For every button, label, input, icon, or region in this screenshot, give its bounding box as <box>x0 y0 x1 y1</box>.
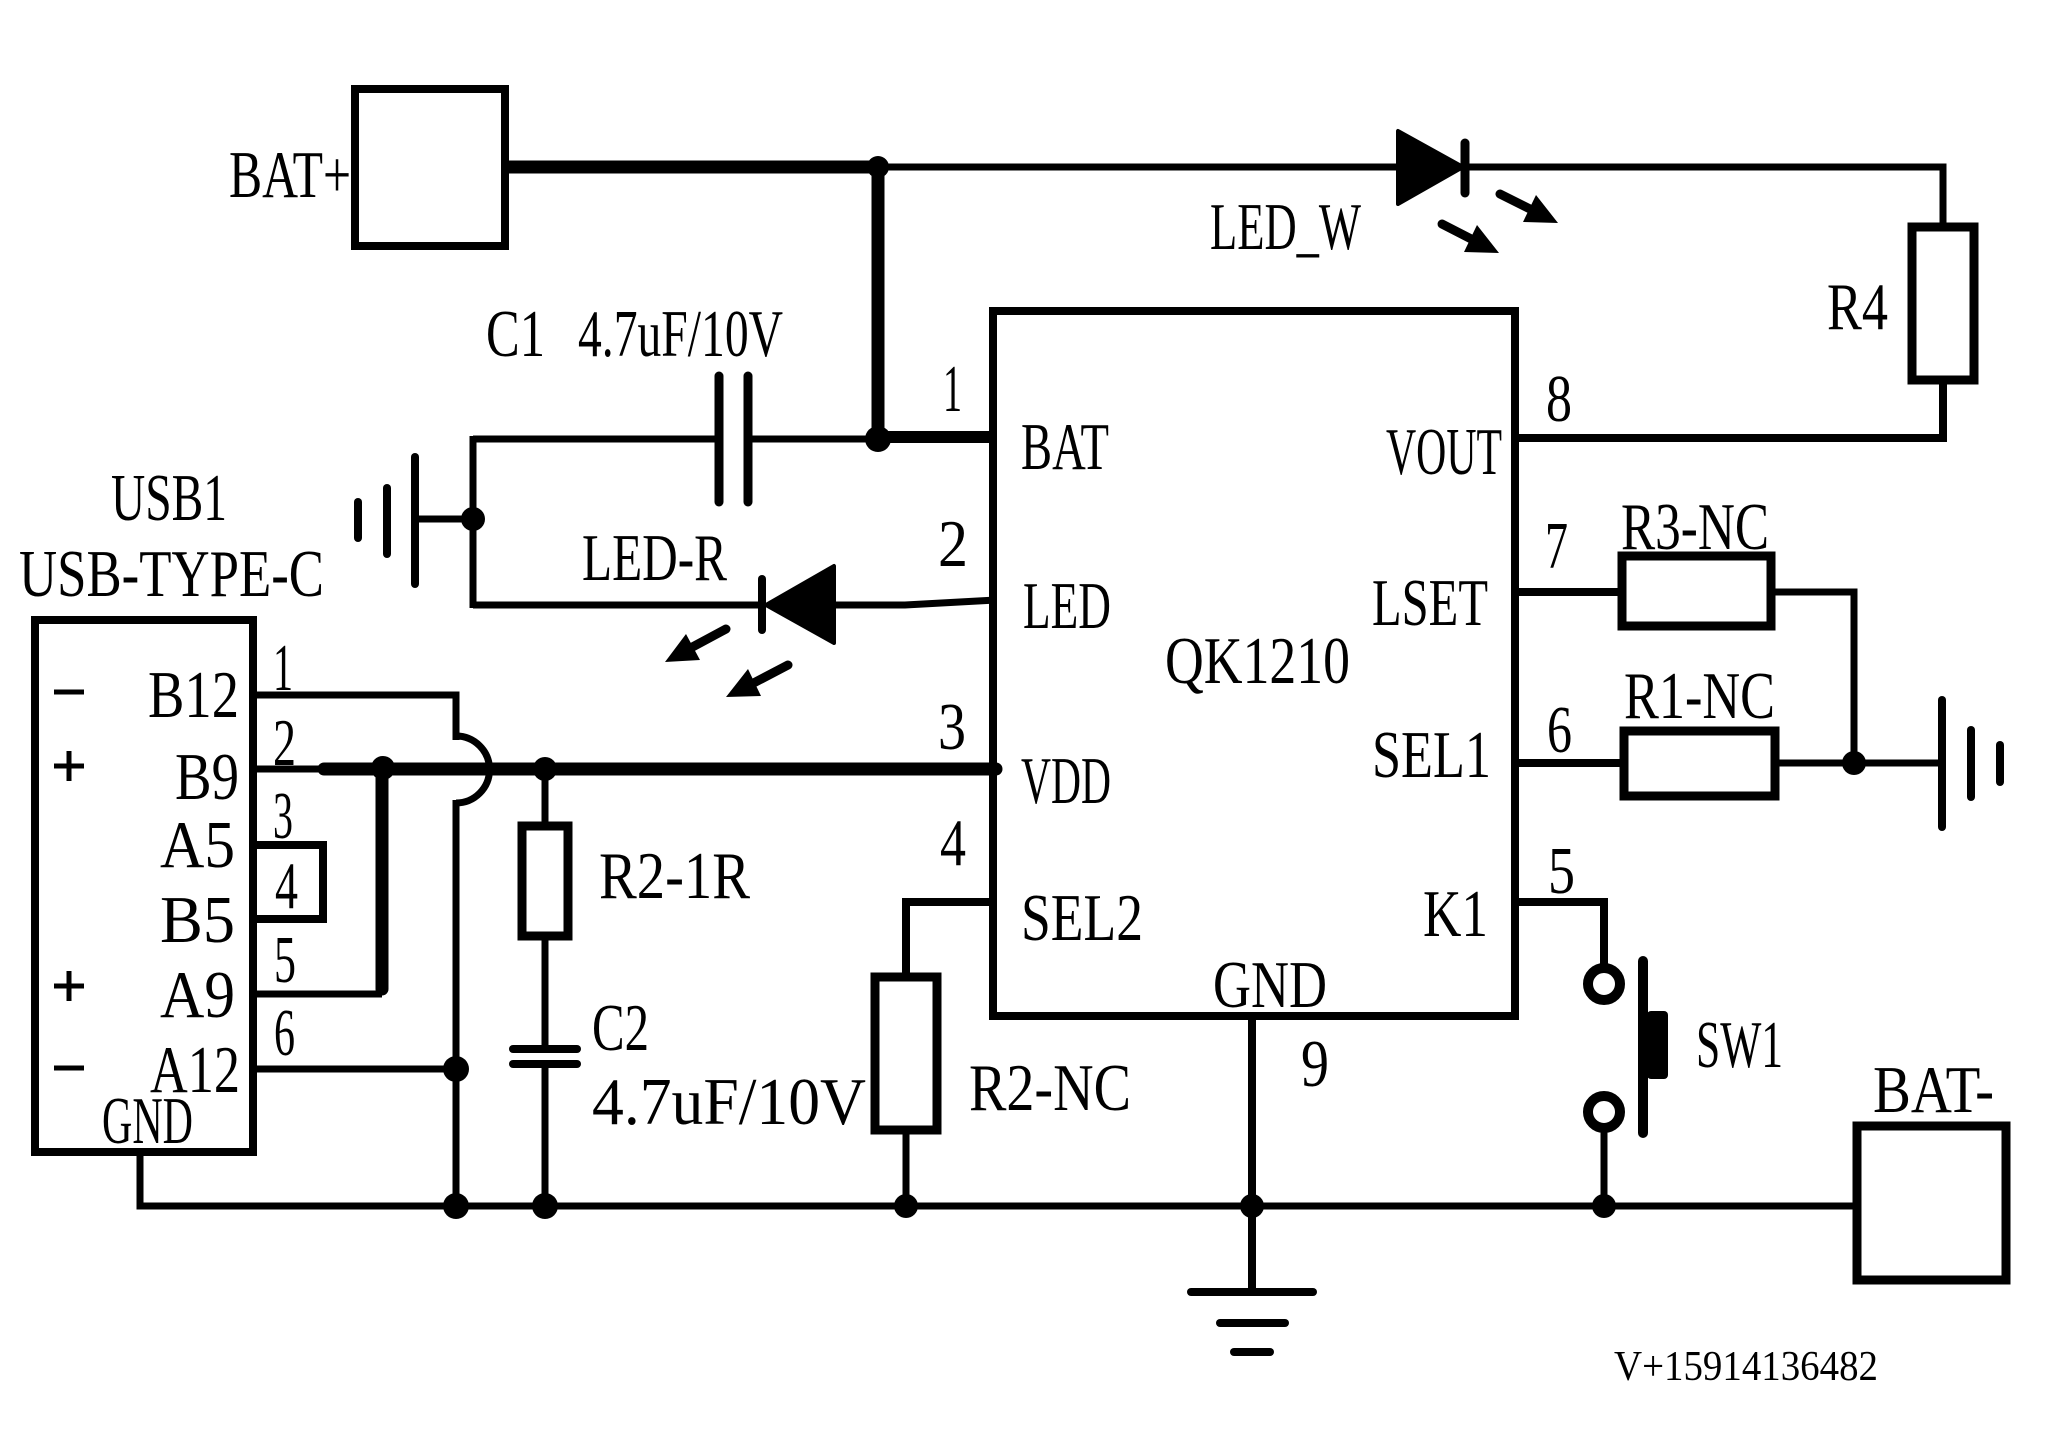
capacitor C2 <box>513 1049 577 1064</box>
svg-text:6: 6 <box>1547 693 1572 767</box>
svg-text:V+15914136482: V+15914136482 <box>1614 1344 1878 1390</box>
wire VDD to R2-1R <box>542 769 549 826</box>
wire hop over VDD net <box>456 736 490 803</box>
svg-text:4.7uF/10V: 4.7uF/10V <box>578 297 783 371</box>
wire left rail vertical <box>470 436 477 608</box>
svg-text:A9: A9 <box>160 958 235 1032</box>
wire A12 stub <box>253 1066 456 1073</box>
svg-text:R3-NC: R3-NC <box>1621 490 1769 564</box>
wire IC GND pin 9 down <box>1248 1016 1256 1292</box>
polarity minus (A12) <box>54 1066 84 1071</box>
svg-text:GND: GND <box>102 1084 193 1158</box>
svg-text:7: 7 <box>1545 509 1568 583</box>
wire A5-B5 short bracket <box>253 845 323 919</box>
svg-text:R2-1R: R2-1R <box>599 839 750 913</box>
LED_W light arrow upper <box>1500 194 1558 223</box>
polarity plus (B9) <box>54 751 84 781</box>
node B9 branch junction <box>371 756 395 780</box>
capacitor C1 <box>719 376 748 502</box>
diode LED-R <box>762 566 834 643</box>
wire B12 pin1 route upper <box>253 695 456 740</box>
wire junction down to pin1 node (thick) <box>872 167 885 440</box>
resistor R2-1R <box>522 826 568 936</box>
svg-text:LSET: LSET <box>1372 566 1488 640</box>
wire LED-R anode side <box>473 602 762 609</box>
wire R1-NC to junction <box>1775 760 1854 767</box>
node ground / left rail junction <box>461 507 485 531</box>
svg-text:R2-NC: R2-NC <box>969 1051 1131 1125</box>
pad BAT+ <box>355 89 505 246</box>
svg-text:USB-TYPE-C: USB-TYPE-C <box>19 537 324 611</box>
svg-text:LED-R: LED-R <box>582 521 727 595</box>
wire R2-1R to C2 <box>542 936 549 1049</box>
wire VDD net B9 to pin3 (thick) <box>324 763 996 776</box>
wire pin7 LSET to R3-NC <box>1512 588 1625 596</box>
wire C2 to ground rail <box>542 1064 549 1206</box>
wire B9 stub <box>253 766 322 773</box>
wire LED_W cathode to R4 top <box>1463 167 1943 230</box>
node GND pin / rail <box>1240 1194 1264 1218</box>
resistor R1-NC <box>1624 731 1775 796</box>
svg-text:BAT-: BAT- <box>1873 1053 1994 1127</box>
svg-text:C1: C1 <box>486 297 545 371</box>
wire pin6 SEL1 to R1-NC <box>1512 759 1627 767</box>
node A12 / B12 net junction <box>443 1056 469 1082</box>
svg-text:USB1: USB1 <box>111 461 227 535</box>
wire A9 stub <box>253 991 382 998</box>
svg-text:5: 5 <box>1548 834 1575 908</box>
svg-text:R1-NC: R1-NC <box>1624 659 1775 733</box>
svg-text:LED_W: LED_W <box>1210 190 1362 264</box>
wire C1 right to BAT node <box>748 436 878 443</box>
wire C1 left <box>473 436 719 443</box>
node BAT pin1 junction <box>865 426 891 452</box>
svg-text:K1: K1 <box>1423 877 1488 951</box>
svg-text:VDD: VDD <box>1021 744 1111 818</box>
svg-text:LED: LED <box>1023 569 1111 643</box>
svg-text:4.7uF/10V: 4.7uF/10V <box>592 1065 866 1139</box>
svg-text:BAT+: BAT+ <box>229 138 351 212</box>
svg-text:6: 6 <box>274 996 295 1070</box>
wire B12 pin1 route lower <box>453 800 460 1206</box>
wire R4 bottom to pin8 VOUT <box>1512 380 1943 438</box>
ground symbol right <box>1942 700 2000 827</box>
svg-text:R4: R4 <box>1827 270 1888 344</box>
wire R2-NC to ground rail <box>903 1130 910 1206</box>
LED-R light arrow lower <box>726 665 788 697</box>
IC U1 QK1210 body <box>993 311 1515 1016</box>
node BAT+ / LED_W junction <box>867 156 889 178</box>
svg-text:1: 1 <box>943 352 962 426</box>
svg-text:4: 4 <box>940 806 966 880</box>
svg-text:5: 5 <box>274 923 296 997</box>
pad BAT- <box>1857 1126 2006 1280</box>
connector USB1 body <box>35 620 253 1152</box>
diode LED_W <box>1398 131 1465 204</box>
node R3/R1 junction <box>1842 751 1866 775</box>
node B12 net / rail <box>443 1193 469 1219</box>
node VDD / R2-1R junction <box>533 757 557 781</box>
wire SW1 to ground rail <box>1601 1128 1608 1206</box>
wire USB GND drop <box>140 1152 250 1206</box>
wire LED-R to pin2 LED <box>834 600 996 605</box>
ground symbol bottom <box>1191 1292 1313 1352</box>
wire junction to right ground <box>1854 760 1942 767</box>
wire bottom ground rail <box>140 1203 1860 1210</box>
svg-text:BAT: BAT <box>1021 410 1109 484</box>
svg-text:VOUT: VOUT <box>1386 415 1502 489</box>
node SW1 / rail <box>1592 1194 1616 1218</box>
svg-text:SEL2: SEL2 <box>1021 881 1143 955</box>
svg-text:8: 8 <box>1546 362 1572 436</box>
svg-text:C2: C2 <box>592 991 649 1065</box>
svg-text:GND: GND <box>1213 948 1327 1022</box>
svg-text:B5: B5 <box>160 883 235 957</box>
resistor R4 <box>1912 227 1974 380</box>
wire B9 to A9 (thick) <box>376 769 389 989</box>
svg-text:2: 2 <box>938 507 968 581</box>
node R2-NC / rail <box>894 1194 918 1218</box>
svg-text:B12: B12 <box>148 658 239 732</box>
resistor R2-NC <box>875 977 937 1130</box>
LED-R light arrow upper <box>665 629 726 662</box>
svg-text:QK1210: QK1210 <box>1165 624 1350 698</box>
svg-text:SEL1: SEL1 <box>1372 718 1491 792</box>
wire BAT+ to junction (thick) <box>505 161 878 174</box>
switch SW1 <box>1588 961 1668 1133</box>
wire pin4 SEL2 to R2-NC <box>906 902 996 977</box>
resistor R3-NC <box>1622 556 1771 626</box>
wire junction to LED_W anode <box>878 164 1400 171</box>
node C2 / rail <box>532 1193 558 1219</box>
polarity plus (A9) <box>54 971 84 1001</box>
svg-text:SW1: SW1 <box>1696 1008 1783 1082</box>
LED_W light arrow lower <box>1442 224 1499 253</box>
wire pin1 BAT (thick) <box>872 431 996 443</box>
polarity minus (B12) <box>54 690 84 695</box>
svg-text:4: 4 <box>275 849 298 923</box>
wire R3-NC to SEL1 net <box>1771 592 1854 763</box>
wire pin5 K1 to SW1 <box>1512 902 1604 966</box>
svg-text:9: 9 <box>1301 1027 1329 1101</box>
svg-text:A5: A5 <box>160 808 235 882</box>
svg-text:3: 3 <box>938 690 966 764</box>
ground symbol left <box>358 457 473 584</box>
svg-text:B9: B9 <box>175 740 239 814</box>
